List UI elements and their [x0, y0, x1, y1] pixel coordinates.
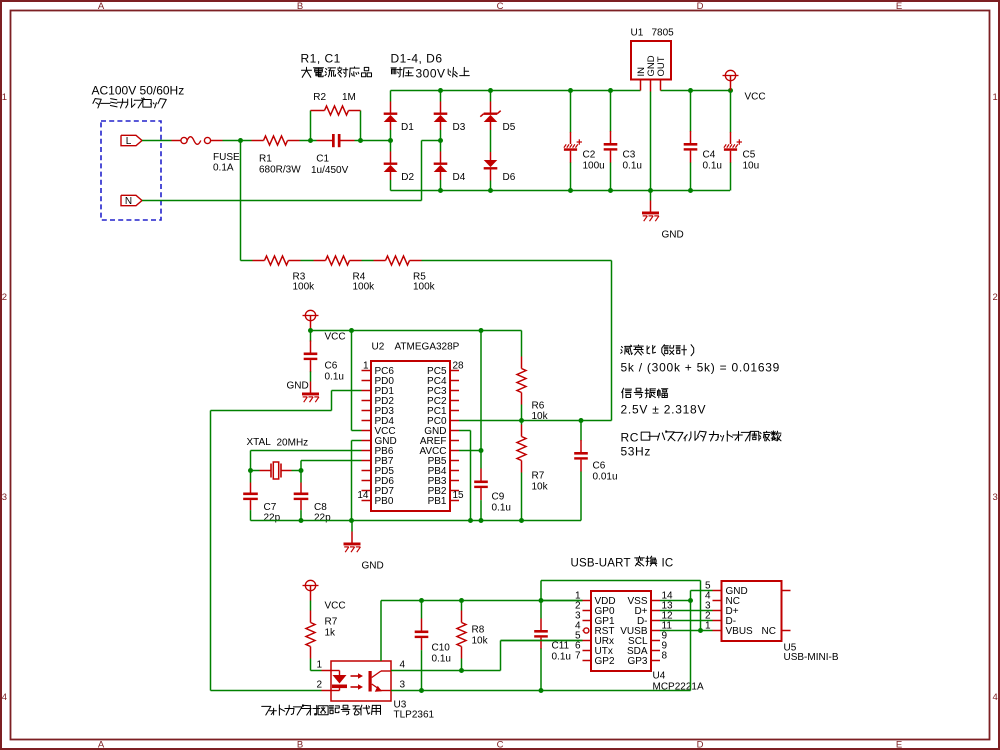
svg-text:3: 3 — [400, 680, 406, 691]
svg-text:VCC: VCC — [325, 601, 346, 612]
svg-text:C5: C5 — [743, 150, 756, 161]
svg-text:22p: 22p — [314, 513, 331, 524]
svg-text:1M: 1M — [342, 92, 356, 103]
svg-text:8: 8 — [662, 651, 668, 662]
svg-text:AC100V 50/60Hz: AC100V 50/60Hz — [92, 84, 185, 98]
svg-text:0.1u: 0.1u — [492, 503, 511, 514]
svg-text:NC: NC — [762, 626, 776, 637]
svg-text:TLP2361: TLP2361 — [394, 710, 435, 721]
svg-text:USB-MINI-B: USB-MINI-B — [784, 652, 839, 663]
svg-text:N: N — [125, 196, 132, 207]
svg-text:10k: 10k — [532, 411, 549, 422]
svg-text:C3: C3 — [623, 150, 636, 161]
svg-text:C8: C8 — [314, 502, 327, 513]
svg-text:100u: 100u — [583, 161, 605, 172]
svg-text:D5: D5 — [503, 122, 516, 133]
svg-text:1k: 1k — [325, 628, 337, 639]
svg-text:4: 4 — [993, 692, 998, 703]
svg-text:10k: 10k — [472, 636, 489, 647]
svg-text:4: 4 — [400, 660, 406, 671]
svg-text:C6: C6 — [325, 361, 338, 372]
svg-text:MCP2221A: MCP2221A — [653, 682, 704, 693]
svg-text:E: E — [896, 1, 902, 12]
svg-text:1: 1 — [363, 361, 369, 372]
svg-text:15: 15 — [453, 490, 465, 501]
svg-text:0.1u: 0.1u — [432, 654, 451, 665]
svg-text:PB1: PB1 — [428, 496, 447, 507]
svg-text:GP2: GP2 — [595, 656, 615, 667]
svg-text:OUT: OUT — [656, 56, 667, 76]
svg-text:GP3: GP3 — [627, 656, 647, 667]
svg-text:VCC: VCC — [745, 92, 766, 103]
svg-text:53Hz: 53Hz — [621, 445, 651, 459]
svg-text:D: D — [697, 1, 704, 12]
svg-text:680R/3W: 680R/3W — [259, 165, 301, 176]
svg-text:A: A — [98, 740, 105, 750]
svg-text:C1: C1 — [316, 154, 329, 165]
svg-text:C: C — [497, 740, 504, 750]
svg-text:1u/450V: 1u/450V — [311, 165, 349, 176]
svg-text:U2: U2 — [372, 342, 385, 353]
svg-text:20MHz: 20MHz — [277, 438, 309, 449]
svg-text:XTAL: XTAL — [247, 437, 272, 448]
svg-text:10u: 10u — [743, 161, 760, 172]
svg-text:C: C — [497, 1, 504, 12]
svg-text:0.1A: 0.1A — [213, 163, 234, 174]
svg-text:C9: C9 — [492, 492, 505, 503]
svg-text:R6: R6 — [532, 401, 545, 412]
svg-text:USB-UART: USB-UART — [571, 558, 631, 570]
svg-text:GND: GND — [362, 561, 384, 572]
svg-text:D1: D1 — [401, 122, 414, 133]
svg-text:B: B — [297, 740, 303, 750]
svg-text:C10: C10 — [432, 643, 451, 654]
svg-text:R7: R7 — [325, 617, 338, 628]
svg-text:5k / (300k + 5k) = 0.01639: 5k / (300k + 5k) = 0.01639 — [621, 361, 781, 375]
svg-text:D6: D6 — [503, 172, 516, 183]
svg-text:2: 2 — [993, 292, 998, 303]
svg-text:E: E — [896, 740, 902, 750]
svg-text:0.1u: 0.1u — [552, 652, 571, 663]
svg-text:28: 28 — [453, 361, 465, 372]
svg-text:D3: D3 — [453, 122, 466, 133]
svg-text:A: A — [98, 1, 105, 12]
svg-text:100k: 100k — [293, 282, 316, 293]
svg-text:0.1u: 0.1u — [703, 161, 722, 172]
svg-text:3: 3 — [2, 492, 7, 503]
svg-text:R2: R2 — [313, 92, 326, 103]
svg-text:FUSE: FUSE — [213, 152, 240, 163]
svg-text:7: 7 — [575, 651, 581, 662]
svg-text:C11: C11 — [552, 641, 570, 652]
svg-text:RC: RC — [621, 431, 640, 445]
svg-text:22p: 22p — [264, 513, 281, 524]
svg-text:U1: U1 — [631, 28, 644, 39]
svg-text:14: 14 — [357, 490, 369, 501]
svg-text:R8: R8 — [472, 625, 485, 636]
svg-text:D4: D4 — [453, 172, 466, 183]
svg-text:2.5V ± 2.318V: 2.5V ± 2.318V — [621, 403, 707, 417]
svg-text:D2: D2 — [401, 172, 414, 183]
svg-text:D: D — [697, 740, 704, 750]
svg-text:7805: 7805 — [652, 28, 675, 39]
svg-text:300V: 300V — [416, 67, 446, 81]
svg-text:GND: GND — [662, 230, 684, 241]
svg-text:1: 1 — [993, 92, 998, 103]
svg-text:0.1u: 0.1u — [325, 372, 344, 383]
svg-text:R7: R7 — [532, 471, 545, 482]
svg-text:1: 1 — [705, 621, 711, 632]
svg-text:10k: 10k — [532, 482, 549, 493]
svg-text:C2: C2 — [583, 150, 596, 161]
svg-text:PB0: PB0 — [375, 496, 394, 507]
svg-text:VBUS: VBUS — [726, 626, 754, 637]
svg-text:0.1u: 0.1u — [623, 161, 642, 172]
svg-text:VCC: VCC — [325, 332, 346, 343]
svg-text:2: 2 — [2, 292, 7, 303]
svg-text:R1: R1 — [259, 154, 272, 165]
svg-text:2: 2 — [317, 680, 323, 691]
svg-text:0.01u: 0.01u — [593, 472, 618, 483]
svg-text:1: 1 — [317, 660, 323, 671]
svg-text:C6: C6 — [593, 461, 606, 472]
svg-text:1: 1 — [2, 92, 7, 103]
svg-text:U4: U4 — [653, 671, 666, 682]
svg-text:C4: C4 — [703, 150, 716, 161]
svg-text:100k: 100k — [353, 282, 376, 293]
svg-text:C7: C7 — [264, 502, 277, 513]
svg-text:ATMEGA328P: ATMEGA328P — [395, 342, 460, 353]
svg-text:B: B — [297, 1, 303, 12]
svg-text:GND: GND — [287, 381, 309, 392]
svg-text:IC: IC — [662, 558, 674, 570]
svg-text:4: 4 — [2, 692, 7, 703]
svg-text:3: 3 — [993, 492, 998, 503]
svg-text:D1-4, D6: D1-4, D6 — [391, 52, 443, 66]
svg-text:R1, C1: R1, C1 — [301, 52, 341, 66]
svg-text:L: L — [126, 136, 132, 147]
svg-text:100k: 100k — [413, 282, 436, 293]
